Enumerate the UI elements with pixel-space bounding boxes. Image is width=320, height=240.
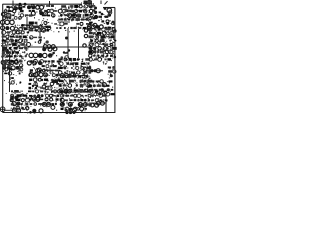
- wire vertical x52 stub: [51, 60, 53, 66]
- junction bottom: [65, 109, 68, 112]
- junction on top bus: [19, 3, 22, 6]
- wire left frame rail: [2, 4, 4, 113]
- resistor R3: [27, 61, 31, 65]
- labels x98-110 y11-22: [98, 11, 112, 23]
- junction bottom bus: [73, 111, 76, 114]
- labels center block y58-92: [58, 58, 92, 93]
- capacitor C12: [84, 29, 87, 32]
- transistor Q16: [83, 67, 87, 71]
- labels left block y60-72: [3, 60, 23, 73]
- junction bottom bus: [29, 111, 32, 114]
- transistor Q1: [9, 7, 13, 11]
- labels row y24-31 right: [48, 22, 92, 33]
- wire segment y70 mid: [44, 69, 60, 71]
- wire bottom bus: [3, 112, 116, 114]
- ground terminal G1: [0, 107, 5, 112]
- junction: [63, 51, 65, 53]
- wire vertical x68: [67, 28, 69, 58]
- labels mid sparse y36-45: [30, 36, 49, 46]
- tube V19: [2, 66, 6, 70]
- junction bottom bus: [33, 111, 36, 114]
- transistor Q22: [42, 102, 46, 106]
- junction y70 line: [90, 69, 93, 72]
- labels dense left block: [1, 30, 30, 61]
- tube V6: [93, 23, 97, 27]
- tube V15: [14, 96, 18, 100]
- junction y92: [64, 91, 67, 94]
- junction: [32, 85, 34, 87]
- junction: [101, 88, 104, 91]
- labels mid y50-59: [50, 52, 68, 61]
- transistor Q3: [31, 5, 35, 9]
- transistor Q14: [39, 73, 43, 77]
- labels mid rows y60-90: [29, 59, 61, 90]
- wire vertical x78: [78, 29, 80, 58]
- resistor R4: [29, 73, 33, 77]
- tube V12: [60, 74, 64, 78]
- wire stub x49 top: [49, 1, 51, 7]
- transistor Q30: [39, 109, 43, 113]
- tube V20: [7, 66, 11, 70]
- transistor Q13: [34, 73, 38, 77]
- wire top-right bus: [103, 7, 115, 9]
- transistor Q5: [68, 14, 72, 18]
- labels y24-30 far right: [104, 22, 115, 29]
- tube V4 cathode: [108, 13, 112, 17]
- tube V2: [39, 11, 43, 15]
- junction y75 line: [68, 73, 71, 76]
- wire right rail: [114, 8, 116, 113]
- wire vertical x40 stub: [39, 29, 41, 36]
- transistor Q20: [12, 102, 16, 106]
- meter M1: [96, 69, 100, 73]
- junction right rail: [113, 29, 117, 33]
- junction: [68, 49, 70, 51]
- wire stub x13 top: [12, 1, 14, 6]
- lamp DS1: [96, 101, 100, 105]
- capacitor C15 plate: [84, 1, 92, 5]
- coil L3: [10, 20, 14, 24]
- labels dark mass y22-31: [28, 21, 51, 33]
- capacitor C3: [43, 45, 47, 49]
- junction: [102, 43, 105, 46]
- coil L5: [10, 26, 14, 30]
- labels right cluster y66-78: [108, 66, 116, 78]
- resistor R20: [88, 0, 92, 4]
- tube V13: [64, 74, 68, 78]
- wire top bus: [3, 3, 83, 5]
- junction: [41, 79, 43, 81]
- wire segment y92: [71, 91, 88, 93]
- tube V1: [31, 11, 35, 15]
- junction right rail: [114, 56, 117, 59]
- junction: [65, 37, 68, 40]
- transistor Q19: [36, 96, 40, 100]
- transistor Q28: [72, 108, 76, 112]
- labels under-line sparse: [51, 105, 63, 111]
- resistor R1: [36, 5, 40, 9]
- junction y75 line: [73, 73, 76, 76]
- wire segment y75 mid: [59, 75, 88, 77]
- tube V5: [5, 26, 9, 30]
- transistor Q18: [31, 96, 35, 100]
- coil L9: [10, 60, 14, 64]
- capacitor C11 plate: [18, 6, 22, 10]
- wire diagonal tick top-right: [105, 1, 108, 4]
- labels top band x58-92: [58, 5, 93, 22]
- junction bottom: [69, 109, 72, 112]
- transistor Q7: [87, 25, 91, 29]
- transistor Q31: [42, 47, 46, 51]
- transistor Q34: [42, 85, 46, 89]
- junction tube pin: [94, 7, 97, 10]
- tube V18: [89, 50, 93, 54]
- wire segment y22 mid: [58, 21, 70, 23]
- coil L8: [6, 60, 10, 64]
- capacitor C4: [47, 45, 51, 49]
- transistor Q12: [37, 68, 41, 72]
- transistor Q27: [83, 103, 87, 107]
- transistor Q24: [60, 102, 64, 106]
- transistor Q29: [32, 109, 36, 113]
- junction y92: [60, 91, 63, 94]
- labels top-left band: [4, 5, 28, 20]
- junction mid: [39, 39, 42, 42]
- transistor Q9: [95, 25, 99, 29]
- transistor Q23: [47, 102, 51, 106]
- resistor R5: [2, 13, 5, 16]
- lamp DS3: [90, 103, 94, 107]
- transistor Q33: [53, 47, 57, 51]
- coil L6: [6, 13, 10, 17]
- junction: [101, 13, 104, 16]
- wire vertical x106 bottom: [105, 96, 107, 113]
- tube V14: [10, 96, 14, 100]
- transistor Q10: [99, 25, 103, 29]
- transistor Q32: [48, 47, 52, 51]
- junction y70 line: [94, 69, 97, 72]
- tube V9: [38, 53, 43, 58]
- wire segment y70 right: [86, 70, 103, 72]
- coil L1: [1, 20, 5, 24]
- wire segment y103 bottom-right: [90, 102, 106, 104]
- tube V4 envelope: [107, 8, 112, 13]
- labels left sparse y72-90: [4, 72, 21, 85]
- labels title top-right: [81, 1, 94, 6]
- junction tube cathode: [94, 15, 98, 19]
- wire vertical x9 left: [9, 54, 11, 92]
- transistor Q17: [102, 83, 106, 87]
- tube V21: [11, 66, 15, 70]
- lamp DS2: [101, 101, 105, 105]
- transistor Q2: [27, 5, 31, 9]
- junction: [36, 85, 38, 87]
- tube V22: [16, 66, 20, 70]
- junction tube pin: [94, 11, 97, 14]
- junction: [96, 33, 100, 37]
- junction bottom bus: [65, 111, 68, 114]
- wire cross x50: [49, 68, 51, 74]
- capacitor C10 plate: [14, 6, 18, 10]
- transistor Q26: [78, 103, 82, 107]
- tube V8: [33, 53, 37, 57]
- transistor Q6: [73, 14, 77, 18]
- transistor Q21: [16, 102, 20, 106]
- junction x9 rail: [6, 49, 9, 52]
- labels right block y28-58: [88, 28, 117, 60]
- labels bottom x90-106: [89, 90, 107, 103]
- transistor Q4: [40, 5, 44, 9]
- transistor Q8: [91, 25, 95, 29]
- junction on top bus: [24, 3, 27, 6]
- coil L10: [15, 61, 19, 65]
- coil L2: [5, 20, 9, 24]
- tube V17: [17, 108, 21, 112]
- resistor R22 body: [52, 80, 59, 83]
- wire stub x101 top: [100, 1, 102, 5]
- wire cross x90: [89, 68, 91, 74]
- tube V7: [29, 53, 33, 57]
- labels top-right column: [88, 4, 95, 23]
- labels right y80-96: [88, 80, 115, 96]
- wire stub x27: [26, 17, 28, 30]
- coil L4: [1, 26, 5, 30]
- capacitor C5: [51, 45, 55, 49]
- labels top-mid band: [29, 9, 59, 21]
- labels top bus marks: [31, 4, 56, 8]
- labels right y58-63: [89, 58, 112, 65]
- resistor R2: [44, 12, 48, 16]
- labels bottom-left block: [10, 90, 29, 113]
- coil L7: [1, 60, 5, 64]
- resistor R21: [33, 61, 37, 65]
- labels left margin bottom: [6, 92, 7, 95]
- wire segment y27 left: [20, 27, 32, 29]
- junction: [104, 7, 107, 10]
- junction: [45, 79, 47, 81]
- capacitor C13: [84, 34, 87, 37]
- transistor Q11: [38, 61, 42, 65]
- capacitor C14: [83, 44, 86, 47]
- junction bottom bus: [69, 111, 72, 114]
- labels bottom-center block: [60, 90, 91, 113]
- labels row y24-31 left: [14, 24, 30, 32]
- labels row y17-21 left: [3, 16, 22, 21]
- tube V3: [77, 14, 81, 18]
- labels bottom-mid block: [28, 90, 66, 107]
- tube V16: [12, 108, 16, 112]
- transistor Q15: [44, 73, 48, 77]
- wire mid horizontal y47: [28, 46, 92, 48]
- tube V10: [43, 53, 47, 57]
- junction x9 rail: [2, 49, 5, 52]
- junction right rail: [112, 21, 115, 24]
- tube V11: [48, 53, 53, 58]
- lamp DS4: [95, 103, 99, 107]
- transistor Q25: [68, 102, 72, 106]
- wire segment y110 bottom-left: [4, 109, 12, 111]
